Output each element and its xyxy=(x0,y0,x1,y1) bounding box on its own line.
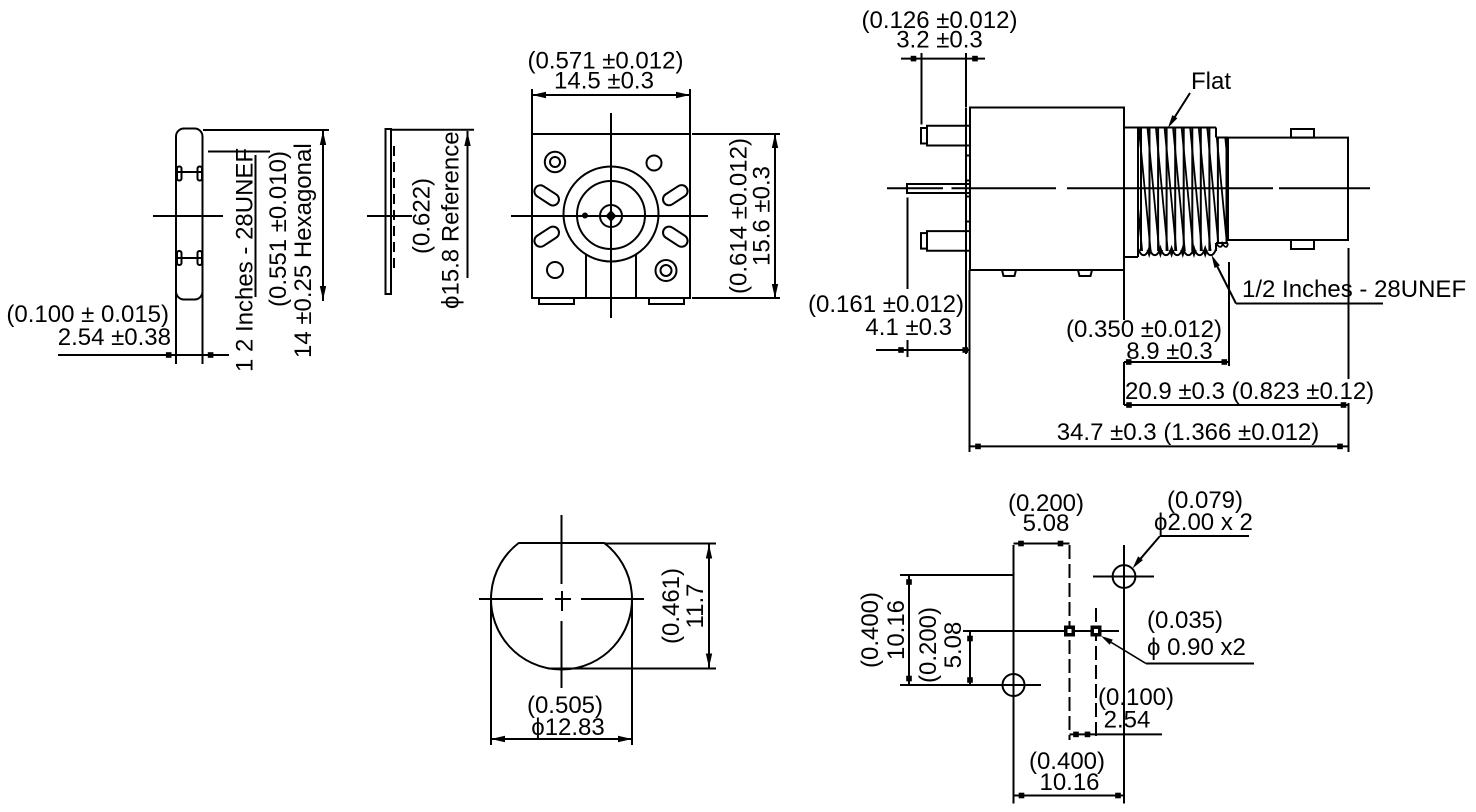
svg-text:2.54 ±0.38: 2.54 ±0.38 xyxy=(58,324,171,351)
pcb right vertical line xyxy=(1123,545,1125,804)
pin hole leader xyxy=(1104,638,1146,664)
pin dim dot right xyxy=(972,56,978,62)
pcb inner dim line 5.08 xyxy=(969,631,971,685)
svg-text:(0.622): (0.622) xyxy=(409,178,436,254)
dim dot xyxy=(1073,732,1079,738)
pin dim dot left xyxy=(911,56,917,62)
Flat leader line xyxy=(1170,93,1190,125)
body bottom boss right xyxy=(1078,270,1092,276)
svg-text:20.9 ±0.3 (0.823 ±0.12): 20.9 ±0.3 (0.823 ±0.12) xyxy=(1125,378,1374,405)
thread start edge xyxy=(1137,128,1139,258)
dim dot xyxy=(906,579,912,585)
cutout bottom extension line xyxy=(548,668,716,670)
thread root scallops xyxy=(1138,248,1216,255)
barrel front extension line lower xyxy=(1348,403,1350,452)
cutout dia arrow left xyxy=(491,736,505,742)
cutout dim arrow up xyxy=(706,545,712,559)
center pin dim line 4.1 xyxy=(876,349,970,351)
dim dot xyxy=(1222,359,1228,365)
dim dot xyxy=(962,347,968,353)
dim dot xyxy=(906,676,912,682)
slot top-right xyxy=(661,183,690,208)
svg-text:(0.200): (0.200) xyxy=(915,607,942,683)
dim dot xyxy=(1337,444,1343,450)
dim dot xyxy=(1058,541,1064,547)
pcb small hole 2 centerline xyxy=(1095,608,1097,740)
slot top-left xyxy=(532,183,561,208)
bottom standoff tab left xyxy=(539,298,574,304)
thread transition top edge xyxy=(1216,137,1228,139)
svg-text:34.7 ±0.3 (1.366 ±0.012): 34.7 ±0.3 (1.366 ±0.012) xyxy=(1057,419,1320,446)
width arrow right xyxy=(676,92,690,98)
front view horizontal centerline xyxy=(511,215,708,217)
svg-text:11.7: 11.7 xyxy=(682,584,709,629)
svg-text:14.5 ±0.3: 14.5 ±0.3 xyxy=(554,68,654,95)
dim dot xyxy=(1126,359,1132,365)
washer dia extension line xyxy=(391,129,474,131)
cutout dia ext left xyxy=(490,599,492,745)
svg-text:ϕ2.00 x 2: ϕ2.00 x 2 xyxy=(1154,509,1253,536)
height dim line 15.6 xyxy=(774,134,776,298)
pcb top hole crosshair xyxy=(1093,576,1154,578)
cutout vertical centerline xyxy=(561,515,563,584)
height dim extension top xyxy=(692,133,780,135)
thread step bottom xyxy=(1215,243,1217,251)
thread label underline xyxy=(1236,303,1383,305)
cutout dia arrow right xyxy=(618,736,632,742)
thread top edge xyxy=(1124,127,1216,129)
pcb small hole 1 centerline xyxy=(1069,545,1071,740)
front center mark diamond xyxy=(606,210,617,222)
transition mini scallops xyxy=(1217,244,1229,247)
svg-text:15.6 ±0.3: 15.6 ±0.3 xyxy=(749,166,776,266)
panel cutout D-circle xyxy=(491,543,632,670)
nut thickness dimension line 2.54 xyxy=(58,354,229,356)
svg-text:ϕ15.8 Reference: ϕ15.8 Reference xyxy=(438,131,465,309)
dim terminator dot left xyxy=(166,352,172,358)
pcb pin hole 1 (phi 0.90) xyxy=(1064,626,1075,637)
washer edge view xyxy=(386,129,392,294)
dim dot xyxy=(975,444,981,450)
center pin dim ext upper xyxy=(907,198,909,290)
hex dim top extension line xyxy=(203,129,329,131)
bayonet lug top xyxy=(1291,129,1314,138)
body face extension line xyxy=(969,270,971,452)
pin dim line 3.2 xyxy=(901,58,985,60)
keyhole leg right xyxy=(635,254,637,299)
body bottom boss left xyxy=(1002,270,1016,276)
cutout height dim line 11.7 xyxy=(708,544,710,669)
side view centerline xyxy=(887,187,943,189)
slot bottom-left xyxy=(532,224,561,249)
body rear extension line upper xyxy=(1123,270,1125,320)
cutout dim arrow down xyxy=(706,654,712,668)
bayonet barrel xyxy=(1228,138,1348,240)
dim dot xyxy=(1019,793,1025,799)
slot bottom-right xyxy=(661,224,690,249)
corner hole bottom-left xyxy=(547,262,563,278)
hex dim arrow up xyxy=(320,131,326,145)
corner hole top-left outer xyxy=(545,152,565,172)
svg-text:(0.461): (0.461) xyxy=(658,568,685,644)
svg-text:(0.035): (0.035) xyxy=(1147,607,1223,634)
front center contact circle xyxy=(600,205,622,227)
svg-text:ϕ12.83: ϕ12.83 xyxy=(531,714,605,741)
front small index dot xyxy=(583,213,588,218)
pin hole leader arrow xyxy=(1101,636,1113,645)
nut thickness extension line left xyxy=(175,292,177,364)
mount hole label underline xyxy=(1160,535,1249,537)
nut chamfer arc lower-left xyxy=(177,251,182,265)
nut chamfer arc lower-right xyxy=(198,251,203,265)
svg-text:10.16: 10.16 xyxy=(1039,769,1099,796)
pcb pin hole 2 (phi 0.90) xyxy=(1091,626,1102,637)
pin dim ext left xyxy=(921,53,923,125)
top pin xyxy=(927,126,970,146)
pcb mount hole top (phi 2.00) xyxy=(1113,565,1136,588)
pcb left vertical line xyxy=(1013,545,1015,804)
height dim extension bottom xyxy=(692,297,780,299)
front view vertical centerline xyxy=(610,113,612,318)
cutout horizontal centerline xyxy=(479,598,543,600)
mount hole leader xyxy=(1136,536,1160,564)
body face inner extension line xyxy=(965,270,967,354)
nut chamfer arc upper-left xyxy=(177,167,182,181)
svg-text:(0.551 ±0.010): (0.551 ±0.010) xyxy=(265,151,292,307)
nut facet line upper xyxy=(176,171,203,173)
thread end extension line xyxy=(1228,262,1230,366)
pcb left dim line 10.16 xyxy=(908,575,910,685)
dim terminator dot right xyxy=(208,352,214,358)
cutout dia ext right xyxy=(631,599,633,745)
pcb mount hole bottom (phi 2.00) xyxy=(1003,674,1025,696)
dim dot xyxy=(1085,732,1091,738)
overall length dim line 34.7 xyxy=(970,445,1349,447)
dim dot xyxy=(898,347,904,353)
svg-text:(0.400): (0.400) xyxy=(857,592,884,668)
dim line 20.9 xyxy=(1124,404,1349,406)
svg-text:2.54: 2.54 xyxy=(1104,707,1151,734)
mount hole leader arrow xyxy=(1133,556,1143,568)
pcb top dim line 5.08 xyxy=(1014,543,1070,545)
dim dot xyxy=(1126,402,1132,408)
body face stub upper xyxy=(966,156,970,181)
dim dot xyxy=(967,677,973,683)
height arrow down xyxy=(772,284,778,298)
washer dashed inner line xyxy=(393,146,395,270)
pcb top extension line xyxy=(900,574,1014,576)
barrel front extension line upper xyxy=(1348,248,1350,379)
nut facet line lower xyxy=(176,257,203,259)
nut centerline xyxy=(153,215,223,217)
svg-text:ϕ 0.90 x2: ϕ 0.90 x2 xyxy=(1147,634,1246,661)
width dim extension left xyxy=(531,89,533,133)
dim dot xyxy=(1018,541,1024,547)
width dim extension right xyxy=(689,89,691,133)
bottom pin xyxy=(927,231,970,251)
connector body side view xyxy=(970,108,1124,271)
Flat leader arrow xyxy=(1168,115,1177,128)
body rear extension line lower xyxy=(1123,362,1125,405)
front shroud outer circle xyxy=(564,167,659,262)
bottom standoff tab right xyxy=(649,298,684,304)
pin hole label underline xyxy=(1146,663,1254,665)
thread step top xyxy=(1215,128,1217,138)
corner hole top-left inner xyxy=(550,157,560,167)
svg-text:5.08: 5.08 xyxy=(1023,510,1070,537)
hex dim arrow down xyxy=(320,286,326,300)
pcb bottom dim line 10.16 xyxy=(1014,795,1125,797)
svg-text:Flat: Flat xyxy=(1191,68,1231,95)
keyhole leg left xyxy=(585,254,587,299)
cutout dia dim line 12.83 xyxy=(491,738,632,740)
thread label leader xyxy=(1214,259,1237,304)
nut chamfer arc upper-right xyxy=(198,167,203,181)
body face stub lower xyxy=(966,197,970,222)
width arrow left xyxy=(532,92,546,98)
svg-text:1 2 Inches - 28UNEF: 1 2 Inches - 28UNEF xyxy=(232,148,259,372)
svg-text:5.08: 5.08 xyxy=(940,622,967,669)
thread label arrow xyxy=(1212,255,1220,268)
pin dim ext right xyxy=(965,53,967,107)
flange square outline xyxy=(532,134,690,298)
dim dot xyxy=(1341,402,1347,408)
washer centerline xyxy=(367,215,412,217)
corner hole bottom-right inner xyxy=(661,265,672,276)
body face inner line xyxy=(965,108,967,271)
washer dim arrow up xyxy=(464,132,470,146)
thread transition bottom edge xyxy=(1216,242,1228,244)
nut thickness extension line right xyxy=(202,292,204,364)
thread length dim line 8.9 xyxy=(1124,361,1229,363)
front shroud inner circle xyxy=(577,181,645,249)
thread label underline xyxy=(255,155,257,297)
bayonet lug bottom xyxy=(1291,240,1314,249)
svg-text:8.9 ±0.3: 8.9 ±0.3 xyxy=(1126,338,1213,365)
width dim line 14.5 xyxy=(532,94,690,96)
dim dot xyxy=(967,636,973,642)
center pin dim ext lower xyxy=(907,340,909,357)
neck bottom edge xyxy=(1124,256,1138,258)
washer dia dim line xyxy=(467,131,469,278)
pcb pitch dim line 2.54 xyxy=(1070,733,1163,735)
cutout flat extension line xyxy=(604,543,716,545)
center contact pin xyxy=(907,184,970,193)
height arrow up xyxy=(772,134,778,148)
thread label leader xyxy=(208,151,270,153)
dim dot xyxy=(1115,793,1121,799)
hex flat dim line xyxy=(322,130,324,301)
pcb bottom extension line xyxy=(900,684,1041,686)
svg-text:14 ±0.25 Hexagonal: 14 ±0.25 Hexagonal xyxy=(290,143,317,358)
svg-text:4.1 ±0.3: 4.1 ±0.3 xyxy=(865,314,952,341)
corner hole bottom-right outer xyxy=(656,260,677,281)
svg-text:1/2 Inches - 28UNEF: 1/2 Inches - 28UNEF xyxy=(1242,276,1466,303)
svg-text:10.16: 10.16 xyxy=(883,600,910,660)
pcb middle row line xyxy=(963,630,1119,632)
hex nut edge view outline xyxy=(176,129,203,300)
corner hole top-right xyxy=(647,156,662,171)
svg-text:3.2 ±0.3: 3.2 ±0.3 xyxy=(896,27,983,54)
